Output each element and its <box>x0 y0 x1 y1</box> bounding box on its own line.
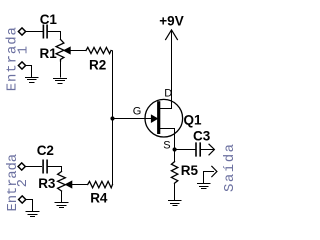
svg-text:R3: R3 <box>38 176 56 191</box>
svg-text:R5: R5 <box>181 163 199 178</box>
svg-text:R1: R1 <box>40 46 58 61</box>
svg-text:C3: C3 <box>193 129 211 144</box>
svg-text:Q1: Q1 <box>184 112 203 127</box>
svg-text:2: 2 <box>15 178 31 187</box>
svg-text:S: S <box>163 140 170 152</box>
svg-text:D: D <box>164 87 172 99</box>
svg-text:1: 1 <box>16 45 32 54</box>
svg-text:Entrada: Entrada <box>5 26 21 91</box>
svg-text:G: G <box>133 106 142 118</box>
svg-text:C1: C1 <box>40 12 58 27</box>
svg-text:C2: C2 <box>37 143 54 158</box>
svg-text:Saída: Saída <box>222 142 236 192</box>
svg-text:R4: R4 <box>90 190 108 205</box>
svg-text:R2: R2 <box>89 58 106 73</box>
svg-text:+9V: +9V <box>159 14 183 29</box>
